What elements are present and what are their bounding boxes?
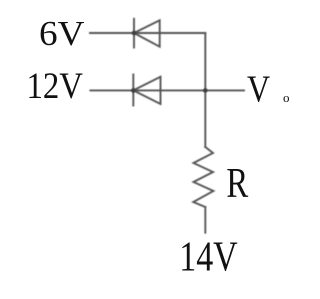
svg-text:o: o [283,90,290,105]
svg-text:12V: 12V [27,65,83,106]
svg-text:V: V [247,68,271,110]
svg-text:R: R [226,160,248,207]
svg-text:6V: 6V [39,14,84,53]
svg-text:14V: 14V [179,234,238,280]
